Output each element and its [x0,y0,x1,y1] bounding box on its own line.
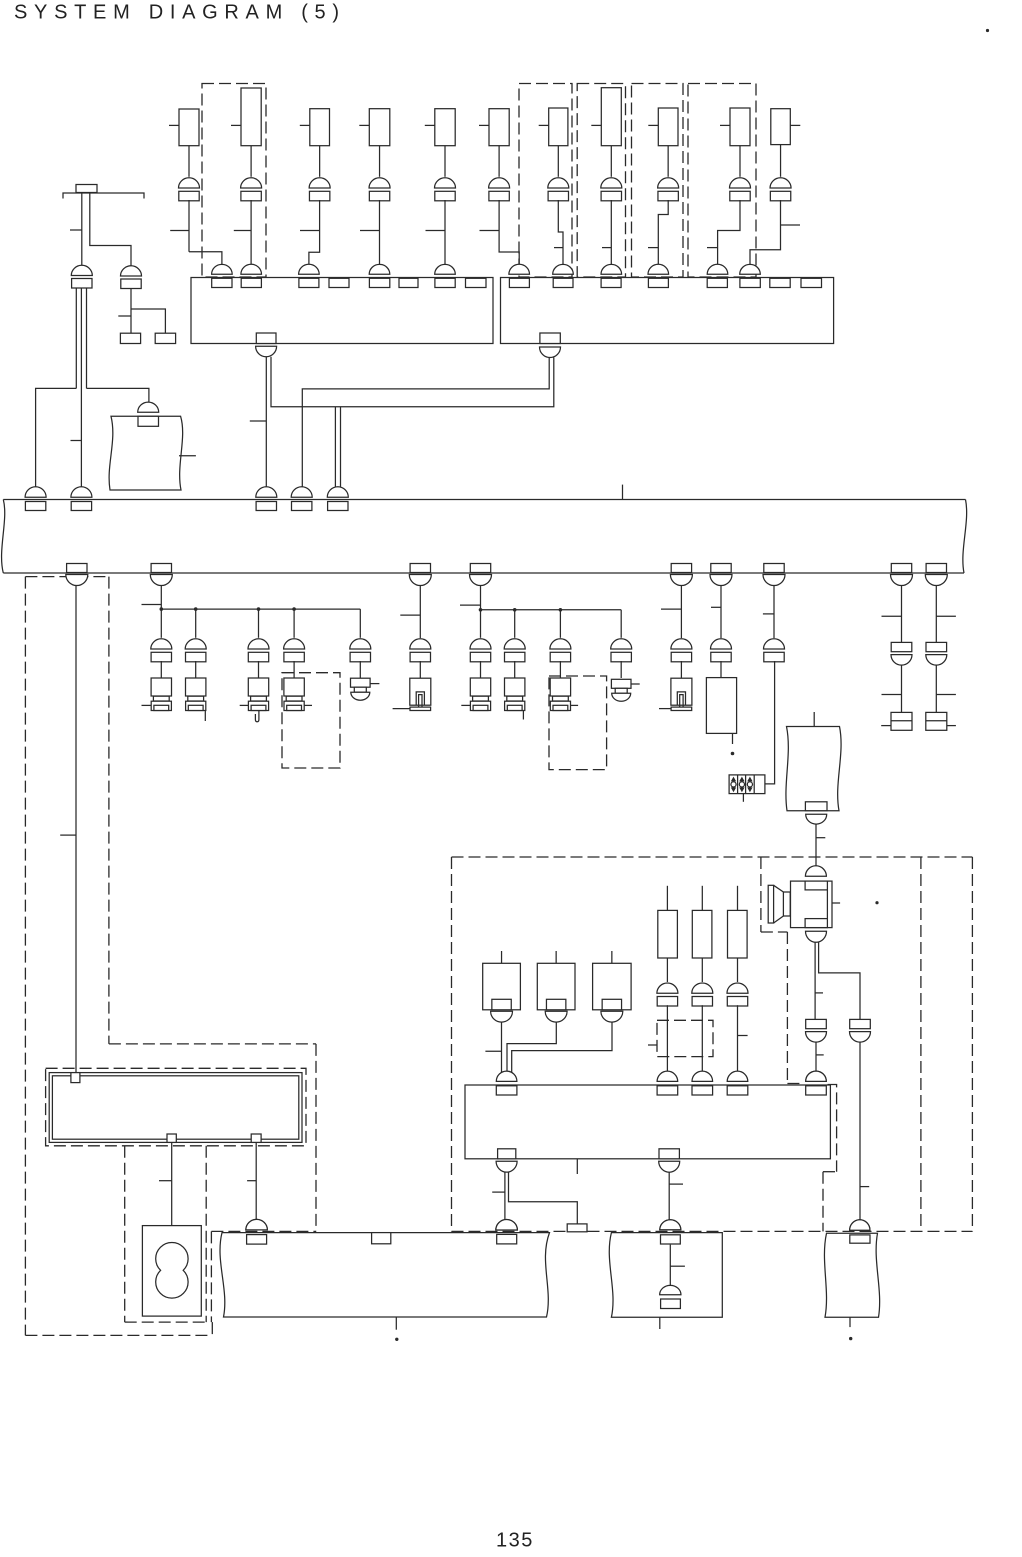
tick [815,992,823,994]
speaker driver [805,866,826,876]
connector [727,983,748,993]
tick [720,124,730,126]
tick [300,230,320,232]
jack component [410,678,431,705]
tick [480,230,500,232]
pin [251,1134,261,1142]
plug component [186,678,206,696]
wire [499,200,519,266]
wire [130,289,132,334]
wire [666,958,668,982]
tick above bus [622,485,624,500]
bus connector bottom [764,564,784,573]
wire [701,958,703,982]
dot [875,901,878,904]
dashed inner divider DG8 [920,857,922,1231]
terminal strip E1 [76,185,97,193]
wire [773,586,775,639]
connector [548,178,569,188]
tick [816,837,825,839]
connector CN-L1 [71,265,92,275]
connector [657,983,678,993]
dashed channel left (bus to lower-left block) [25,576,109,578]
bus connector top [25,487,46,498]
tick [781,224,801,226]
wire [80,288,82,488]
bus right break [963,500,967,574]
dashed group box DG7 (large lower-right region) [452,856,973,858]
stub [395,1317,397,1330]
wire [131,309,165,333]
pin [329,278,349,287]
tick [304,704,312,706]
tick [882,694,902,696]
connector [601,178,622,188]
connector CN-W3 dome [850,1220,870,1231]
torn box W6 [824,1233,879,1317]
stub [659,1317,661,1329]
connector CN-B1 [256,346,277,357]
tick [882,615,902,617]
wire [258,609,260,638]
bus connector top [71,487,92,498]
tick [881,725,891,727]
wire [309,200,320,266]
tick [790,124,800,126]
wire [701,1005,703,1073]
connector inline [891,642,912,651]
bus top edge [3,499,965,501]
wire [189,252,222,266]
dot [731,752,735,756]
tick [707,247,718,249]
module box IC3 [465,1085,830,1159]
dashed box around motor block [124,1146,126,1322]
tick [70,229,82,231]
wire [188,146,190,177]
plug component [470,678,490,696]
connector on IC2 [740,264,761,274]
connector inline [850,1019,871,1028]
tick [393,708,410,710]
tick [816,1054,824,1056]
junction [292,607,296,611]
connector [350,639,371,649]
tick [359,124,369,126]
tick [554,247,563,249]
tick [947,725,956,727]
stray dot top right [986,29,989,32]
tick [169,124,179,126]
torn box W1 [109,416,183,490]
bus connector bottom [926,564,946,573]
stub [849,1317,851,1327]
connector [770,178,791,188]
connector [711,639,732,649]
wire [504,1172,506,1221]
dashed group box DG12 (small, resistor pair) [657,1020,713,1056]
wire [514,661,516,678]
connector CN-P5 [660,1220,681,1230]
module box IC1 [191,278,493,344]
connector [660,1285,681,1294]
wire [81,193,83,266]
plug component [284,678,304,696]
tick [179,455,196,457]
tick [669,1183,683,1185]
wire [250,200,252,266]
connector [309,178,330,188]
tick [648,1044,657,1046]
dot [395,1338,398,1341]
wire [379,146,381,177]
wire [480,661,482,678]
switch stub [255,711,259,722]
wire [188,200,190,252]
wire [379,200,381,266]
wire [334,407,336,489]
dashed box around speaker chain DG9 [760,857,762,932]
bus left break [2,500,5,574]
connector on IC1 [299,264,320,274]
dot [849,1337,852,1340]
connector [179,178,200,188]
wire [271,357,554,407]
connector CN-W1 [138,402,159,412]
tick [479,124,489,126]
tick [648,247,658,249]
tick [360,230,380,232]
tick [159,1180,172,1182]
connector [185,639,206,649]
connector CN-P4 [496,1220,517,1230]
connector on IC1 [212,264,233,274]
connector [435,178,456,188]
dashed channel bottom edge [25,1334,212,1336]
wire [265,357,267,489]
connector [470,639,491,649]
wire [720,661,722,678]
connector CN-B2 [540,347,561,358]
wire [765,661,775,784]
connector CN-S2 [806,931,827,942]
connector [489,178,510,188]
bus connector top [327,487,348,498]
wire [340,407,342,489]
connector [550,639,571,649]
tick [738,1035,748,1037]
bus connector bottom [410,564,430,573]
wire [480,610,482,638]
plug component [248,678,268,696]
wire [737,958,739,982]
wire [480,586,482,610]
tick [142,704,152,706]
tick [370,683,379,685]
dashed group box DG11 (plug group lower 2) [549,676,607,770]
tick [860,1186,869,1188]
terminal block [891,712,912,730]
plug component [505,678,525,696]
connector [671,639,692,649]
tick [250,420,266,422]
wire [859,1042,861,1220]
bus connector bottom [711,564,731,573]
connector below IC3 [496,1161,517,1172]
tick [300,124,310,126]
wire [669,1245,671,1286]
bus bottom edge [3,572,964,574]
tick [234,230,251,232]
pin [466,278,487,287]
pin [399,278,418,287]
tick [142,604,162,606]
wire [160,609,162,638]
component [435,109,455,146]
connector [504,639,525,649]
jack component [671,678,692,705]
tick [832,902,840,904]
dashed group box DG2 [519,84,572,278]
connector CN-P3 [246,1219,268,1230]
tab [567,1224,587,1232]
tick [426,230,446,232]
motor component M4 [142,1226,201,1317]
terminal T1 [120,333,140,343]
wire [195,609,197,638]
wire [620,661,622,678]
dashed box around control unit [46,1068,306,1146]
wire [36,388,77,488]
wire [419,586,421,639]
wire [718,200,740,266]
connector CN-P4 dome [496,1220,517,1230]
wire [444,146,446,177]
tick [763,613,774,615]
wire [780,145,782,177]
tick [240,704,249,706]
terminal T2 [155,333,175,343]
connector on IC3 [496,1071,517,1081]
wire [666,1005,668,1073]
connector on IC1 [241,264,262,274]
connector on IC2 [553,264,574,274]
bus connector bottom [891,564,911,573]
dashed group box DG6 (lower-left region) [109,1043,316,1045]
wire [680,661,682,678]
component [771,109,791,145]
tick [60,834,76,836]
tick [813,712,815,727]
wire [750,200,781,266]
wire [293,609,295,638]
wire [498,146,500,177]
wire [171,1142,173,1225]
resistor component [701,886,703,911]
pin [498,1149,516,1159]
pin [659,1149,679,1159]
junction [513,608,517,612]
tick [670,1265,685,1267]
bus connector bottom [470,564,490,573]
tick [460,604,481,606]
connector on IC1 [369,264,390,274]
wire [819,942,860,1019]
dashed group box DG10 (plug group lower) [282,673,340,768]
wire [680,586,682,639]
terminal block [926,712,947,730]
component [310,109,330,146]
tab on IC2 bottom [540,333,560,344]
tick [648,124,658,126]
connector on IC3 [692,1071,713,1081]
wire [160,661,162,678]
connector [692,983,713,993]
wire [512,1022,612,1073]
stub [204,711,206,721]
torn box W2 [786,727,841,811]
connector [730,178,751,188]
tick [425,124,435,126]
wire [737,1005,739,1073]
connector on IC2 [509,264,530,274]
transformer component [555,951,557,963]
resistor component [666,886,668,911]
level meter box [729,775,765,794]
wire [87,388,149,404]
capped plug component [351,678,371,687]
arrow glyph [747,777,752,782]
dashed group box DG5 [688,84,756,278]
wire [935,665,937,713]
tick [170,230,189,232]
wire [195,661,197,678]
bus connector top [291,487,312,498]
connector on IC2 [707,264,728,274]
tick [118,315,131,317]
pin [770,278,790,287]
wire [668,1172,670,1221]
tick [591,124,601,126]
stub [732,733,734,744]
wire [658,200,668,266]
wire [514,610,516,638]
connector CN-P3 dome [246,1219,268,1230]
plug component [151,678,171,696]
stub [742,793,744,801]
arrow glyph [731,777,736,782]
svg-text:135: 135 [496,1530,534,1552]
stub [576,1159,578,1174]
bracket bar [63,193,144,199]
wire [901,665,903,713]
connector on IC3 [806,1071,827,1081]
wire [501,1022,503,1073]
connector CN-P5 dome [660,1220,681,1230]
connector below IC3 [659,1161,680,1172]
tick [661,608,681,610]
wire [667,146,669,177]
connector [284,639,305,649]
component [549,108,568,146]
junction [160,607,164,611]
bus connector bottom [67,564,87,573]
pin [167,1134,176,1142]
tick [247,1180,256,1182]
component [179,109,199,146]
connector [611,639,632,649]
tick [711,606,721,608]
branch wire [161,608,360,610]
dashed group box DG4 [632,84,684,278]
pin [801,278,822,287]
component [601,88,621,146]
wire [901,586,903,643]
connector [369,178,390,188]
tick [492,1191,505,1193]
pin [71,1073,80,1083]
wire [86,288,88,388]
wire [558,200,563,266]
wire [559,661,561,678]
connector [764,639,785,649]
tab [805,802,827,811]
bus connector bottom [671,564,691,573]
connector CN-S1 [806,814,827,824]
wire [255,1142,257,1220]
pin [372,1233,391,1244]
wire [720,586,722,639]
transformer component [611,951,613,963]
wire [258,661,260,678]
connector [241,178,262,188]
wire [739,146,741,177]
tick [71,440,82,442]
tick [461,704,470,706]
torn box W4 [220,1233,550,1317]
resistor component [737,886,739,911]
tick [400,614,420,616]
wire [359,609,361,638]
component [369,109,390,146]
wire [557,146,559,177]
wire [160,586,162,610]
connector inline [806,1019,827,1028]
wire [302,358,549,489]
wire [509,1172,578,1224]
wire [293,661,295,678]
connector on IC1 [435,264,456,274]
connector inline [926,642,947,651]
bus connector top [256,487,277,497]
connector on IC3 [727,1071,748,1081]
tick [936,694,956,696]
tick [570,704,578,706]
tab on IC1 bottom [256,333,276,344]
speaker horn [768,885,773,923]
junction [559,608,563,612]
tick [539,124,549,126]
plug component [550,678,570,696]
torn box W5 [609,1233,722,1318]
connector on IC2 [648,264,669,274]
junction [257,607,261,611]
connector [658,178,679,188]
tick [231,124,241,126]
component [658,108,678,146]
wire [610,146,612,177]
tick [485,1050,501,1052]
